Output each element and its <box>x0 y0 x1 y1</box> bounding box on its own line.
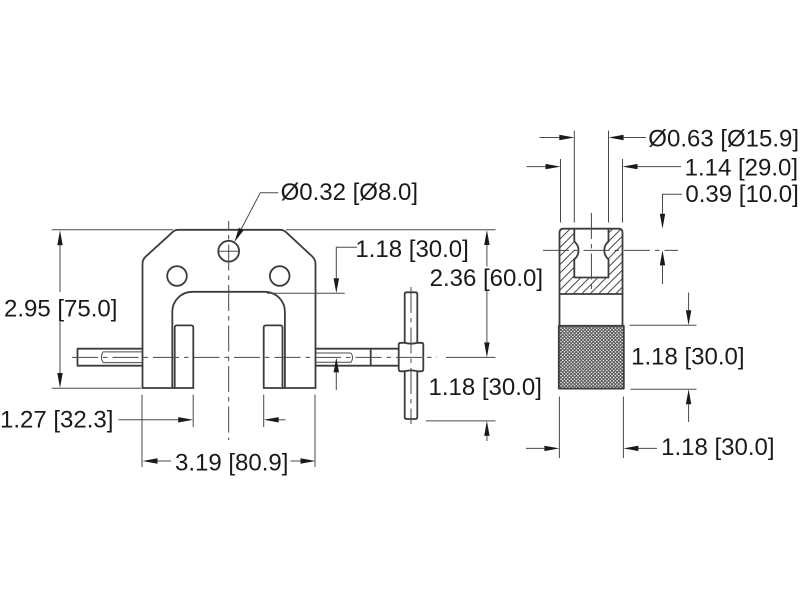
svg-text:2.95 [75.0]: 2.95 [75.0] <box>4 296 117 323</box>
svg-text:1.18 [30.0]: 1.18 [30.0] <box>661 434 774 461</box>
svg-text:Ø0.63 [Ø15.9]: Ø0.63 [Ø15.9] <box>648 126 799 153</box>
svg-text:2.36 [60.0]: 2.36 [60.0] <box>430 265 543 292</box>
svg-text:1.18 [30.0]: 1.18 [30.0] <box>429 374 542 401</box>
svg-text:Ø0.32 [Ø8.0]: Ø0.32 [Ø8.0] <box>281 179 418 206</box>
svg-text:0.39 [10.0]: 0.39 [10.0] <box>685 181 798 208</box>
svg-text:1.14 [29.0]: 1.14 [29.0] <box>685 154 798 181</box>
svg-text:1.18 [30.0]: 1.18 [30.0] <box>631 344 744 371</box>
svg-text:1.27 [32.3]: 1.27 [32.3] <box>0 407 113 434</box>
svg-text:1.18 [30.0]: 1.18 [30.0] <box>355 236 468 263</box>
svg-text:3.19 [80.9]: 3.19 [80.9] <box>175 450 288 477</box>
